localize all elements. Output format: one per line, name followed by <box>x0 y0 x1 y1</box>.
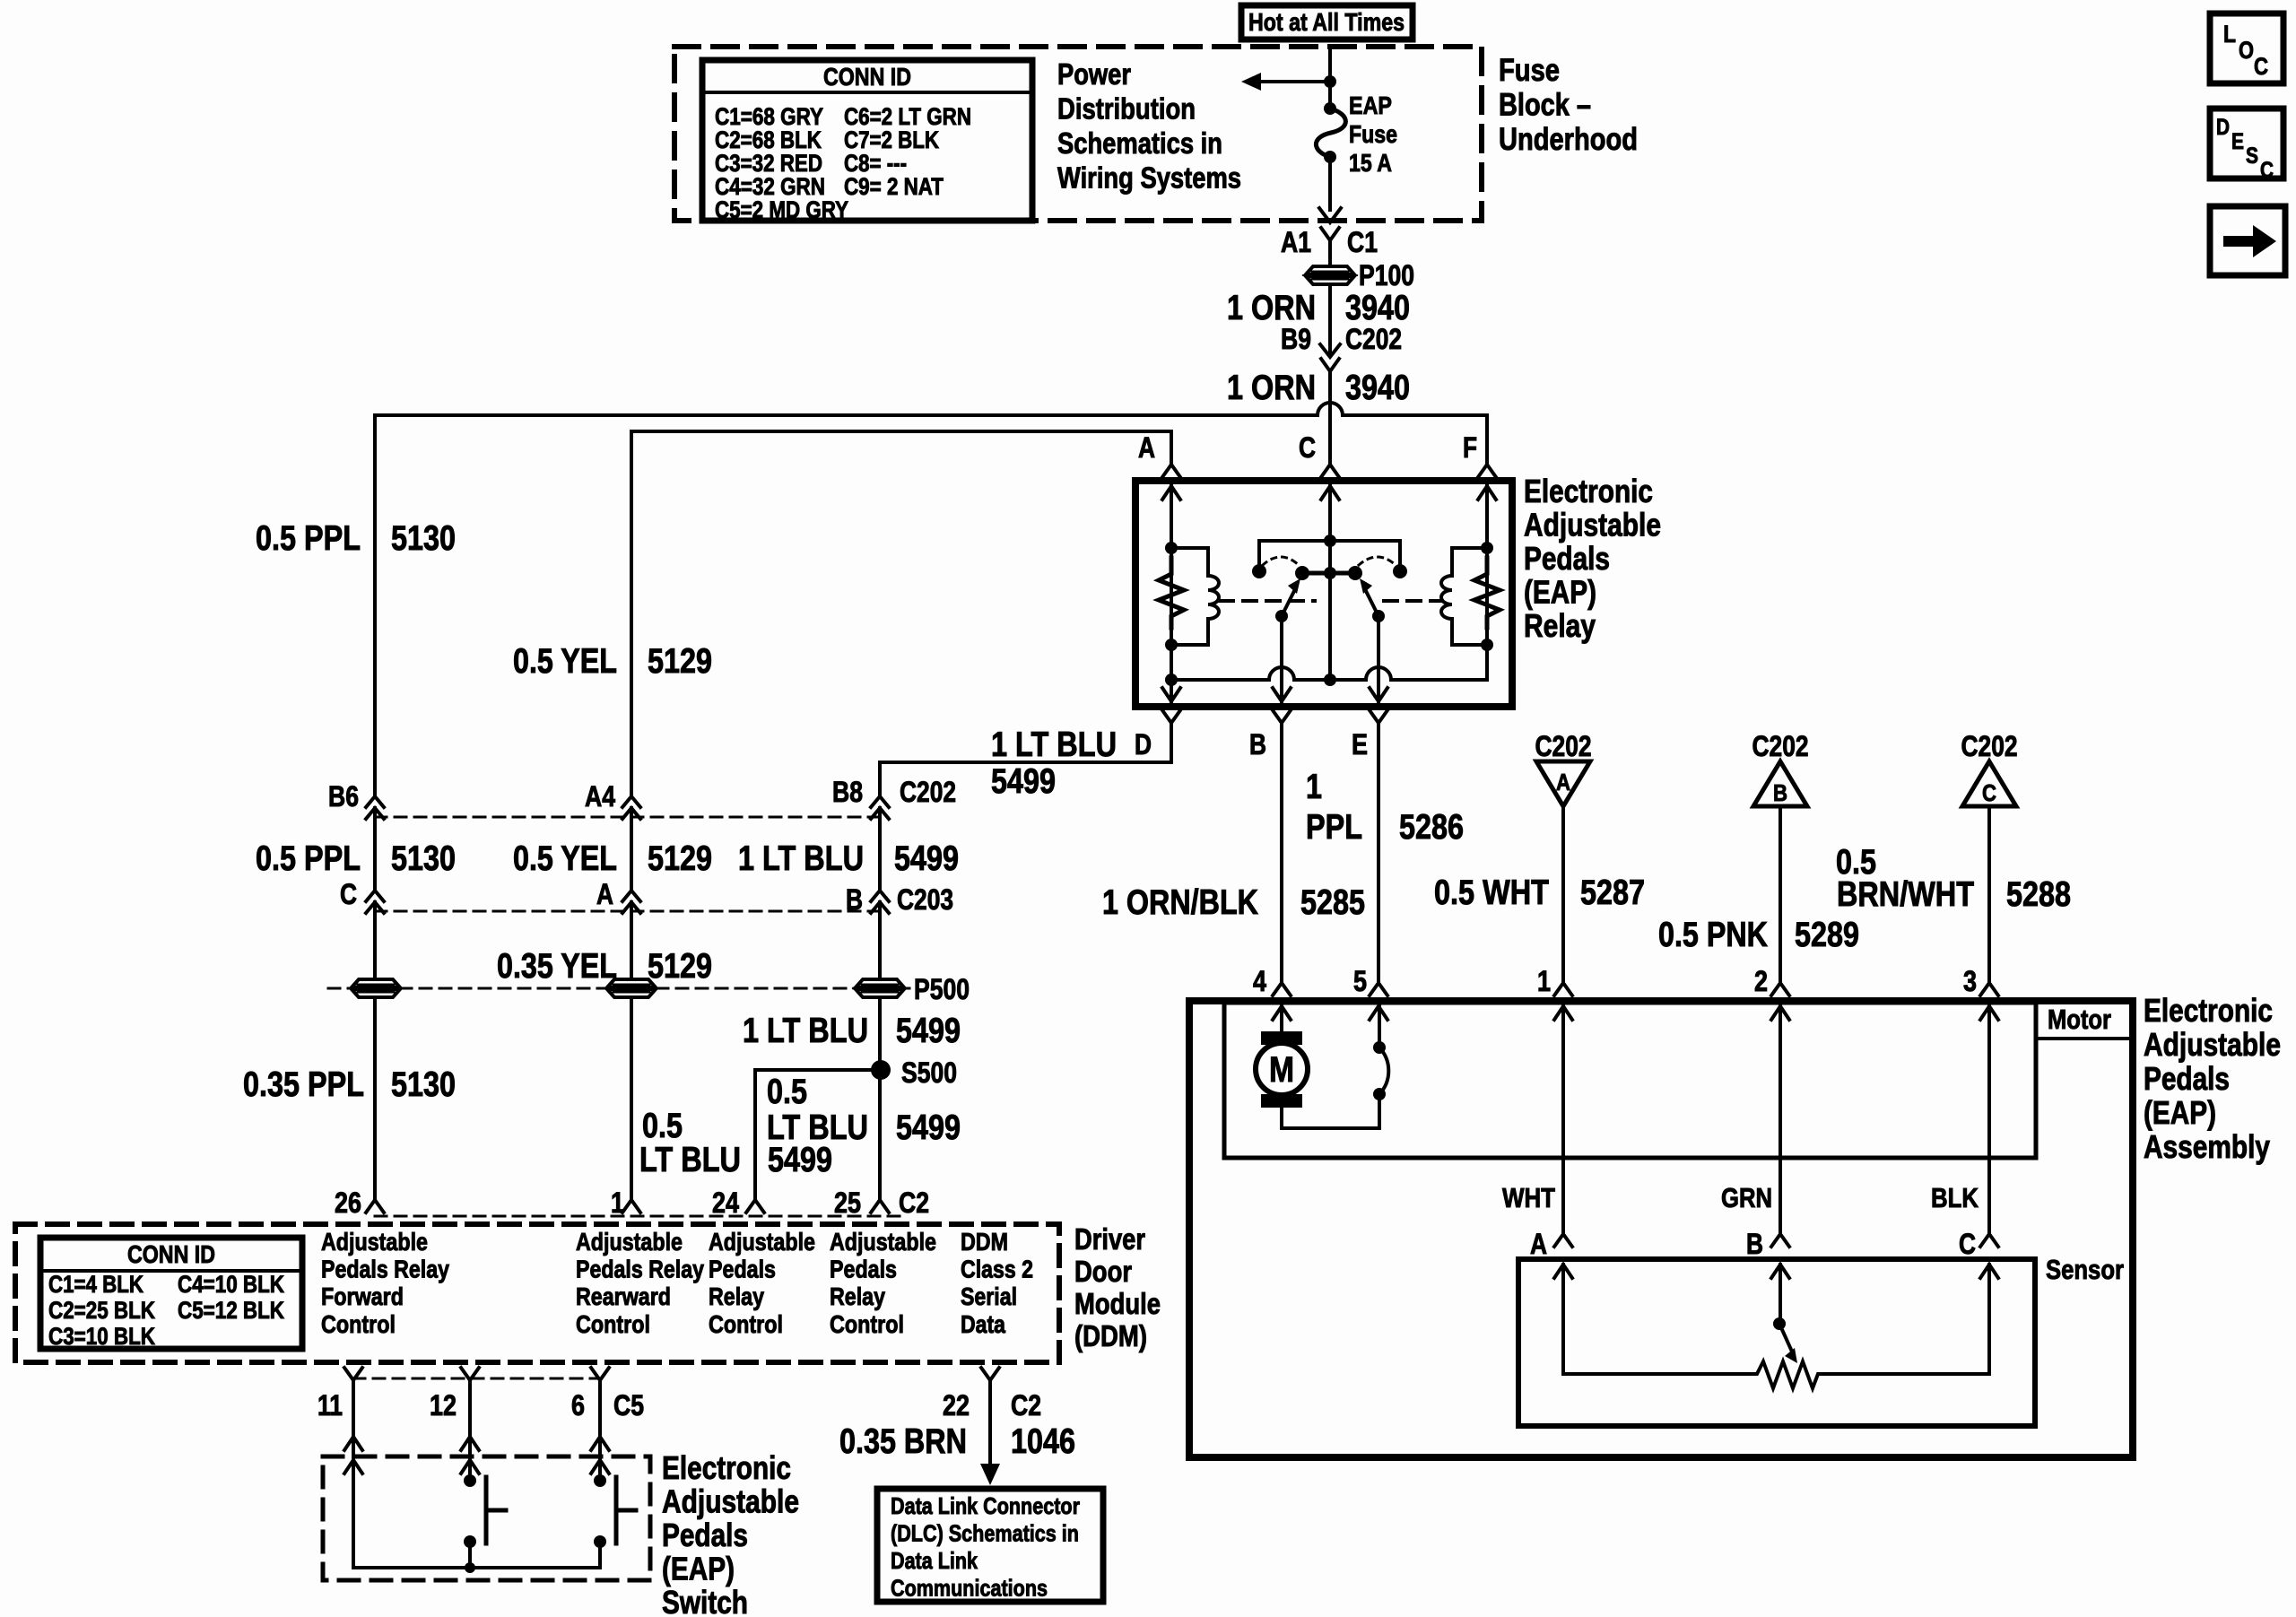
wire switch 11 internal <box>352 1460 355 1568</box>
svg-text:1046: 1046 <box>1011 1422 1075 1461</box>
assembly pin fork <box>1980 983 1998 995</box>
dashed P500 line left <box>328 987 352 990</box>
svg-text:A: A <box>1138 431 1155 464</box>
svg-text:0.5 PNK: 0.5 PNK <box>1658 916 1768 954</box>
svg-text:5499: 5499 <box>894 839 959 878</box>
DESC reference box <box>2210 109 2283 178</box>
relay resistor right <box>1474 558 1500 628</box>
next-page arrow box <box>2210 206 2285 275</box>
switch 12 actuator bar <box>484 1477 489 1543</box>
svg-text:Module: Module <box>1074 1287 1161 1320</box>
svg-text:Schematics in: Schematics in <box>1057 126 1222 160</box>
relay coil right <box>1441 548 1487 645</box>
svg-text:Adjustable: Adjustable <box>576 1228 683 1256</box>
svg-text:CONN ID: CONN ID <box>823 63 911 91</box>
connector C5 arrow pin 11 <box>344 1437 362 1450</box>
relay pin F fork <box>1478 465 1496 477</box>
svg-text:5: 5 <box>1353 965 1367 997</box>
svg-text:O: O <box>2239 37 2254 64</box>
svg-text:(EAP): (EAP) <box>1524 574 1596 611</box>
svg-text:Electronic: Electronic <box>1524 473 1653 509</box>
svg-text:Assembly: Assembly <box>2144 1128 2270 1165</box>
svg-text:D: D <box>2216 115 2230 140</box>
relay pin C fork <box>1321 465 1339 477</box>
CONN ID table (fuse block) <box>702 60 1032 221</box>
svg-text:Fuse: Fuse <box>1349 120 1397 148</box>
svg-text:C202: C202 <box>1535 730 1592 762</box>
CONN ID table (DDM) <box>40 1238 302 1349</box>
svg-text:Hot at All Times: Hot at All Times <box>1248 8 1405 36</box>
svg-text:B9: B9 <box>1281 323 1311 355</box>
svg-text:Data: Data <box>961 1310 1005 1338</box>
svg-text:C4=10 BLK: C4=10 BLK <box>178 1271 284 1298</box>
connector P500 (PPL) <box>352 979 400 987</box>
svg-text:12: 12 <box>430 1389 457 1421</box>
svg-text:5130: 5130 <box>391 1065 456 1104</box>
wire 0.5 YEL 5129 to A4 <box>630 431 633 796</box>
svg-text:Power: Power <box>1057 57 1131 91</box>
svg-text:(DLC) Schematics in: (DLC) Schematics in <box>891 1520 1079 1547</box>
EAP assembly box <box>1189 1001 2133 1457</box>
junction switch common <box>465 1562 475 1573</box>
svg-text:A: A <box>1530 1228 1547 1260</box>
wire switch 6 internal <box>598 1460 602 1481</box>
svg-text:1 LT BLU: 1 LT BLU <box>738 839 864 878</box>
svg-text:C5=2 MD GRY: C5=2 MD GRY <box>715 196 848 223</box>
switch bottom common wire <box>353 1566 600 1569</box>
wire fuse output <box>1328 157 1332 210</box>
relay stationary contact left <box>1252 564 1266 578</box>
svg-text:1 LT BLU: 1 LT BLU <box>743 1012 868 1050</box>
svg-text:Pedals: Pedals <box>830 1256 897 1283</box>
svg-text:5289: 5289 <box>1795 916 1859 954</box>
sensor potentiometer <box>1563 1265 1989 1388</box>
relay internal line F <box>1485 481 1489 645</box>
relay actuator dashed left <box>1220 599 1315 603</box>
svg-text:0.35 YEL: 0.35 YEL <box>497 947 617 986</box>
junction dot hot feed <box>1324 75 1336 88</box>
svg-text:0.5: 0.5 <box>767 1073 807 1111</box>
svg-text:Adjustable: Adjustable <box>2144 1026 2281 1063</box>
svg-text:C5=12 BLK: C5=12 BLK <box>178 1297 284 1324</box>
svg-text:5499: 5499 <box>896 1108 961 1147</box>
Hot at All Times label box <box>1241 5 1413 39</box>
svg-text:D: D <box>1135 728 1152 761</box>
svg-text:Communications: Communications <box>891 1575 1048 1602</box>
pin 22 fork <box>981 1368 999 1380</box>
svg-text:Relay: Relay <box>830 1282 885 1310</box>
wire 1 ORN/BLK 5285 <box>1280 723 1283 981</box>
svg-text:5130: 5130 <box>391 839 456 878</box>
svg-text:Adjustable: Adjustable <box>709 1228 815 1256</box>
svg-text:Driver: Driver <box>1074 1222 1145 1256</box>
svg-text:0.5 YEL: 0.5 YEL <box>513 839 617 878</box>
relay actuator dashed right <box>1384 599 1440 603</box>
wire 0.5 BRN/WHT 5288 <box>1987 806 1991 981</box>
junction C bar <box>1324 535 1336 547</box>
svg-text:C2: C2 <box>1011 1389 1041 1421</box>
connector C5 arrow pin 6 <box>591 1437 609 1450</box>
svg-text:5499: 5499 <box>991 762 1056 801</box>
relay pin D fork <box>1162 710 1180 723</box>
relay movable contact bridge <box>1302 571 1355 576</box>
svg-text:Distribution: Distribution <box>1057 92 1196 126</box>
relay pin A fork <box>1162 465 1180 477</box>
wire to motor <box>1280 1006 1283 1031</box>
svg-text:5130: 5130 <box>391 519 456 558</box>
pin 25 fork <box>871 1200 889 1213</box>
svg-text:25: 25 <box>834 1187 861 1219</box>
EAP switch box <box>323 1456 650 1580</box>
wire 0.35 BRN 1046 <box>988 1380 992 1467</box>
svg-text:BLK: BLK <box>1931 1182 1979 1213</box>
wire 0.5 LT BLU 5499 to pin 25 <box>878 1070 882 1200</box>
relay pin B fork <box>1273 710 1291 723</box>
connector C203 C <box>366 891 384 901</box>
wire to P100 <box>1328 240 1332 266</box>
wire 1 ORN 3940 upper <box>1328 284 1332 355</box>
svg-text:Control: Control <box>576 1310 650 1338</box>
motor M <box>1261 1031 1302 1045</box>
connector P500 (YEL) <box>607 979 656 987</box>
svg-text:Pedals Relay: Pedals Relay <box>576 1256 704 1283</box>
svg-text:1 LT BLU: 1 LT BLU <box>991 726 1117 764</box>
switch 6 actuator tick <box>616 1508 636 1513</box>
Motor label box <box>2036 1003 2133 1039</box>
wire 0.5 PPL segment 2 <box>373 808 377 891</box>
relay arrow C in <box>1321 486 1339 500</box>
svg-text:C203: C203 <box>897 883 953 916</box>
pin 12 fork <box>461 1368 479 1380</box>
arrow glyph <box>2223 225 2276 257</box>
svg-text:C9= 2 NAT: C9= 2 NAT <box>844 173 944 200</box>
svg-text:C5: C5 <box>613 1389 644 1421</box>
connector P100 <box>1306 266 1354 274</box>
svg-text:Control: Control <box>709 1310 783 1338</box>
svg-text:Underhood: Underhood <box>1499 122 1638 157</box>
Data Link Connector note box <box>877 1489 1103 1602</box>
assembly pin fork <box>1554 983 1572 995</box>
EAP relay box <box>1135 481 1512 707</box>
svg-text:Block –: Block – <box>1499 88 1591 123</box>
svg-text:B8: B8 <box>832 776 863 808</box>
sensor pin fork <box>1771 1234 1789 1247</box>
svg-text:5285: 5285 <box>1300 883 1365 922</box>
svg-text:LT BLU: LT BLU <box>767 1108 868 1147</box>
motor breaker contact <box>1373 1088 1386 1100</box>
svg-text:Switch: Switch <box>662 1584 748 1617</box>
svg-text:0.5: 0.5 <box>642 1107 683 1145</box>
svg-text:1 ORN: 1 ORN <box>1227 369 1316 407</box>
svg-text:B: B <box>1773 779 1787 806</box>
svg-text:Pedals: Pedals <box>662 1517 748 1553</box>
svg-text:C: C <box>340 878 357 910</box>
switch 6 actuator bar <box>614 1477 619 1543</box>
motor return wire <box>1282 1094 1379 1128</box>
svg-text:Wiring Systems: Wiring Systems <box>1057 161 1241 195</box>
svg-text:0.5 PPL: 0.5 PPL <box>256 839 361 878</box>
arrow out of fuse block <box>1319 208 1341 222</box>
connector P500 (LT BLU) <box>856 979 904 987</box>
svg-text:0.5 PPL: 0.5 PPL <box>256 519 361 558</box>
svg-text:5129: 5129 <box>648 839 712 878</box>
wire 0.5 PNK 5289 <box>1779 806 1782 981</box>
wire 0.35 PPL segment <box>373 902 377 979</box>
svg-text:Control: Control <box>321 1310 396 1338</box>
LOC reference box <box>2210 13 2283 83</box>
svg-text:B: B <box>1746 1228 1763 1260</box>
svg-text:0.5 YEL: 0.5 YEL <box>513 642 617 681</box>
svg-text:B: B <box>1249 728 1266 761</box>
svg-text:M: M <box>1269 1050 1294 1090</box>
wire 0.5 WHT 5287 <box>1561 806 1565 981</box>
relay coil left <box>1171 548 1219 645</box>
svg-text:5129: 5129 <box>648 947 712 986</box>
pin 1 fork <box>622 1200 640 1213</box>
assembly pin fork <box>1370 983 1387 995</box>
connector C202 inline (B9) <box>1320 344 1340 357</box>
arrow inside sensor <box>1980 1265 1998 1278</box>
svg-text:C: C <box>1299 431 1316 464</box>
svg-text:S: S <box>2246 143 2258 169</box>
arrow inside sensor <box>1554 1265 1572 1278</box>
svg-text:3: 3 <box>1963 965 1977 997</box>
relay contact feed bar <box>1259 541 1400 571</box>
wire 0.5 PPL 5130 to B6 <box>373 415 377 796</box>
svg-text:Pedals: Pedals <box>1524 540 1610 577</box>
connector C202 B6 <box>366 796 384 807</box>
svg-text:C: C <box>1959 1228 1976 1260</box>
svg-text:Relay: Relay <box>709 1282 764 1310</box>
svg-text:C2: C2 <box>899 1187 929 1219</box>
relay arrow D out <box>1162 688 1180 701</box>
wire arrow to power distribution <box>1261 80 1330 83</box>
dashed connector line C5 <box>353 1378 600 1380</box>
arrow inside assembly <box>1273 1006 1291 1020</box>
connector C202 A4 <box>622 796 640 807</box>
svg-text:Relay: Relay <box>1524 607 1596 644</box>
sensor wiper <box>1779 1265 1782 1324</box>
relay switch arm B <box>1275 610 1288 622</box>
svg-text:Motor: Motor <box>2048 1004 2111 1035</box>
svg-text:Adjustable: Adjustable <box>1524 507 1661 543</box>
svg-text:Adjustable: Adjustable <box>321 1228 428 1256</box>
svg-text:(DDM): (DDM) <box>1074 1319 1147 1352</box>
arrow inside sensor <box>1771 1265 1789 1278</box>
svg-text:Rearward: Rearward <box>576 1282 671 1310</box>
relay switch arm E <box>1372 610 1385 622</box>
svg-text:C202: C202 <box>1345 323 1402 355</box>
svg-text:WHT: WHT <box>1502 1182 1555 1213</box>
relay dotted travel arc right <box>1359 557 1396 565</box>
svg-text:Forward: Forward <box>321 1282 404 1310</box>
svg-text:A: A <box>1556 769 1570 795</box>
svg-text:4: 4 <box>1253 965 1266 997</box>
wire branch to relay F (hops ORN wire) <box>375 403 1487 465</box>
svg-text:Adjustable: Adjustable <box>830 1228 936 1256</box>
connector C203 B <box>871 891 889 901</box>
junction center-bottom <box>1324 674 1336 686</box>
svg-text:Class 2: Class 2 <box>961 1256 1033 1283</box>
svg-text:Adjustable: Adjustable <box>662 1483 799 1520</box>
svg-text:Pedals: Pedals <box>2144 1060 2230 1097</box>
svg-text:L: L <box>2223 21 2236 48</box>
wire switch pin 12 <box>468 1380 472 1456</box>
svg-text:5288: 5288 <box>2006 875 2071 914</box>
svg-text:Data Link Connector: Data Link Connector <box>891 1492 1080 1519</box>
svg-text:1 ORN/BLK: 1 ORN/BLK <box>1102 883 1258 922</box>
svg-text:(EAP): (EAP) <box>662 1551 735 1587</box>
connector C202 B8 <box>871 796 889 807</box>
dashed connector line C202 <box>375 816 880 819</box>
relay dotted travel arc left <box>1263 557 1299 565</box>
wire WHT sensor A <box>1561 1006 1565 1234</box>
fuse EAP 15A <box>1324 102 1336 115</box>
svg-text:P100: P100 <box>1359 259 1414 291</box>
sensor sub-box <box>1518 1259 2035 1426</box>
splice S500 <box>871 1060 891 1080</box>
relay internal line C <box>1328 481 1332 680</box>
relay resistor left <box>1159 558 1184 628</box>
wire 0.35 YEL segment <box>630 902 633 979</box>
svg-text:(EAP): (EAP) <box>2144 1094 2216 1131</box>
svg-text:5286: 5286 <box>1399 808 1464 847</box>
wire switch 12 internal <box>468 1460 472 1481</box>
wire 0.5 LT BLU 5499 to pin 24 <box>755 1070 881 1200</box>
svg-text:24: 24 <box>712 1187 739 1219</box>
svg-text:CONN ID: CONN ID <box>127 1240 215 1268</box>
contact 12 lower <box>464 1535 476 1548</box>
svg-text:2: 2 <box>1754 965 1768 997</box>
svg-text:0.35 PPL: 0.35 PPL <box>243 1065 364 1104</box>
svg-text:1 ORN: 1 ORN <box>1227 289 1316 327</box>
relay bottom common wire <box>1171 645 1487 680</box>
svg-text:C2=25 BLK: C2=25 BLK <box>48 1297 155 1324</box>
svg-text:0.5 WHT: 0.5 WHT <box>1434 874 1549 912</box>
svg-text:DDM: DDM <box>961 1228 1008 1256</box>
relay arrow A in <box>1162 486 1180 500</box>
svg-text:Serial: Serial <box>961 1282 1017 1310</box>
svg-text:C1: C1 <box>1347 226 1378 258</box>
assembly pin fork <box>1771 983 1789 995</box>
svg-text:C: C <box>1982 779 1996 806</box>
svg-text:Control: Control <box>830 1310 904 1338</box>
wire 1 ORN 3940 lower <box>1328 371 1332 465</box>
svg-text:5499: 5499 <box>896 1012 961 1050</box>
Driver Door Module box <box>15 1224 1059 1362</box>
arrow inside switch <box>461 1460 479 1474</box>
svg-text:1: 1 <box>1537 965 1551 997</box>
svg-text:Pedals: Pedals <box>709 1256 776 1283</box>
dashed connector line C2 <box>375 1215 906 1218</box>
svg-text:PPL: PPL <box>1306 808 1362 847</box>
arrow into DLC box <box>980 1464 1000 1485</box>
svg-text:LT BLU: LT BLU <box>639 1141 741 1179</box>
svg-text:Electronic: Electronic <box>662 1449 791 1486</box>
svg-text:1: 1 <box>1306 768 1322 806</box>
svg-text:5287: 5287 <box>1580 874 1645 912</box>
svg-text:A4: A4 <box>585 780 615 813</box>
wire 0.5 YEL segment 2 <box>630 808 633 891</box>
pin 6 fork <box>591 1368 609 1380</box>
switch 12 actuator tick <box>486 1508 506 1513</box>
svg-text:S500: S500 <box>901 1056 957 1089</box>
svg-text:C3=10 BLK: C3=10 BLK <box>48 1323 155 1350</box>
svg-text:C: C <box>2260 158 2274 183</box>
arrow inside switch <box>591 1460 609 1474</box>
dashed connector line C203 <box>375 910 880 913</box>
svg-text:E: E <box>1352 728 1368 761</box>
wire GRN sensor B <box>1779 1006 1782 1234</box>
svg-text:3940: 3940 <box>1345 289 1410 327</box>
svg-text:Fuse: Fuse <box>1499 53 1560 88</box>
svg-text:F: F <box>1463 431 1477 464</box>
sensor pin fork <box>1980 1234 1998 1247</box>
svg-text:C: C <box>2254 53 2268 80</box>
svg-text:Sensor: Sensor <box>2046 1254 2124 1285</box>
svg-text:5129: 5129 <box>648 642 712 681</box>
svg-text:0.35 BRN: 0.35 BRN <box>839 1422 967 1461</box>
relay internal line A-D <box>1170 481 1173 707</box>
wire 1 LT BLU 5499 to S500 <box>878 997 882 1070</box>
contact 6 lower <box>594 1535 606 1548</box>
pin 24 fork <box>746 1200 764 1213</box>
wire switch pin 11 <box>352 1380 355 1456</box>
fuse block underhood box <box>674 47 1482 221</box>
svg-text:Electronic: Electronic <box>2144 992 2273 1029</box>
wire 1 PPL 5286 <box>1377 723 1380 981</box>
wire switch pin 6 <box>598 1380 602 1456</box>
arrow inside assembly <box>1370 1006 1387 1020</box>
wire hot feed <box>1328 47 1332 109</box>
svg-text:6: 6 <box>571 1389 585 1421</box>
wire BLK sensor C <box>1987 1006 1991 1234</box>
relay stationary contact right <box>1393 564 1407 578</box>
svg-text:26: 26 <box>335 1187 361 1219</box>
svg-text:Pedals Relay: Pedals Relay <box>321 1256 449 1283</box>
svg-text:B6: B6 <box>328 780 359 813</box>
svg-text:Door: Door <box>1074 1255 1132 1288</box>
svg-text:Data Link: Data Link <box>891 1547 978 1574</box>
svg-text:C202: C202 <box>900 776 956 808</box>
svg-text:3940: 3940 <box>1345 369 1410 407</box>
assembly pin fork <box>1273 983 1291 995</box>
relay pin E fork <box>1370 710 1387 723</box>
relay arrow F in <box>1478 486 1496 500</box>
svg-text:A1: A1 <box>1281 226 1311 258</box>
svg-text:E: E <box>2231 129 2244 154</box>
svg-text:C1=4 BLK: C1=4 BLK <box>48 1271 143 1298</box>
svg-text:BRN/WHT: BRN/WHT <box>1837 875 1974 914</box>
CONN ID separator 2 <box>40 1269 302 1273</box>
contact 12 upper <box>464 1474 476 1487</box>
svg-text:22: 22 <box>943 1389 970 1421</box>
svg-text:P500: P500 <box>914 973 970 1005</box>
svg-text:GRN: GRN <box>1721 1182 1772 1213</box>
motor sub-box <box>1224 1003 2036 1158</box>
CONN ID separator <box>702 91 1032 94</box>
wire 1 LT BLU segment 3 <box>878 902 882 979</box>
wire 0.35 PPL 5130 to pin 26 <box>373 997 377 1200</box>
sensor pin fork <box>1554 1234 1572 1247</box>
wire 1 LT BLU 5499 from relay D <box>880 723 1171 796</box>
pin 26 fork <box>366 1200 384 1213</box>
svg-text:A: A <box>596 878 613 910</box>
svg-text:15 A: 15 A <box>1349 149 1392 177</box>
svg-text:EAP: EAP <box>1349 91 1392 119</box>
pin 11 fork <box>344 1368 362 1380</box>
wire 1 LT BLU segment 2 <box>878 808 882 891</box>
